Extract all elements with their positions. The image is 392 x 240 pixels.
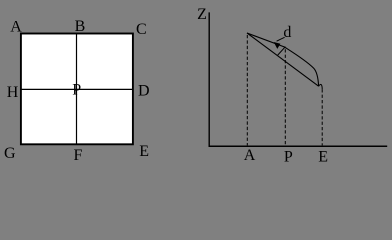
svg-text:E: E [318, 149, 328, 166]
svg-text:B: B [75, 18, 86, 35]
svg-text:H: H [7, 84, 19, 101]
svg-text:F: F [74, 147, 83, 164]
svg-text:d: d [283, 24, 291, 41]
svg-text:E: E [139, 143, 149, 160]
svg-text:D: D [138, 83, 150, 100]
svg-text:A: A [10, 19, 22, 36]
svg-text:G: G [4, 145, 16, 162]
svg-text:C: C [136, 21, 147, 38]
svg-text:A: A [244, 147, 256, 164]
svg-text:P: P [72, 82, 81, 99]
svg-text:Z: Z [197, 6, 207, 23]
svg-text:P: P [284, 149, 293, 166]
